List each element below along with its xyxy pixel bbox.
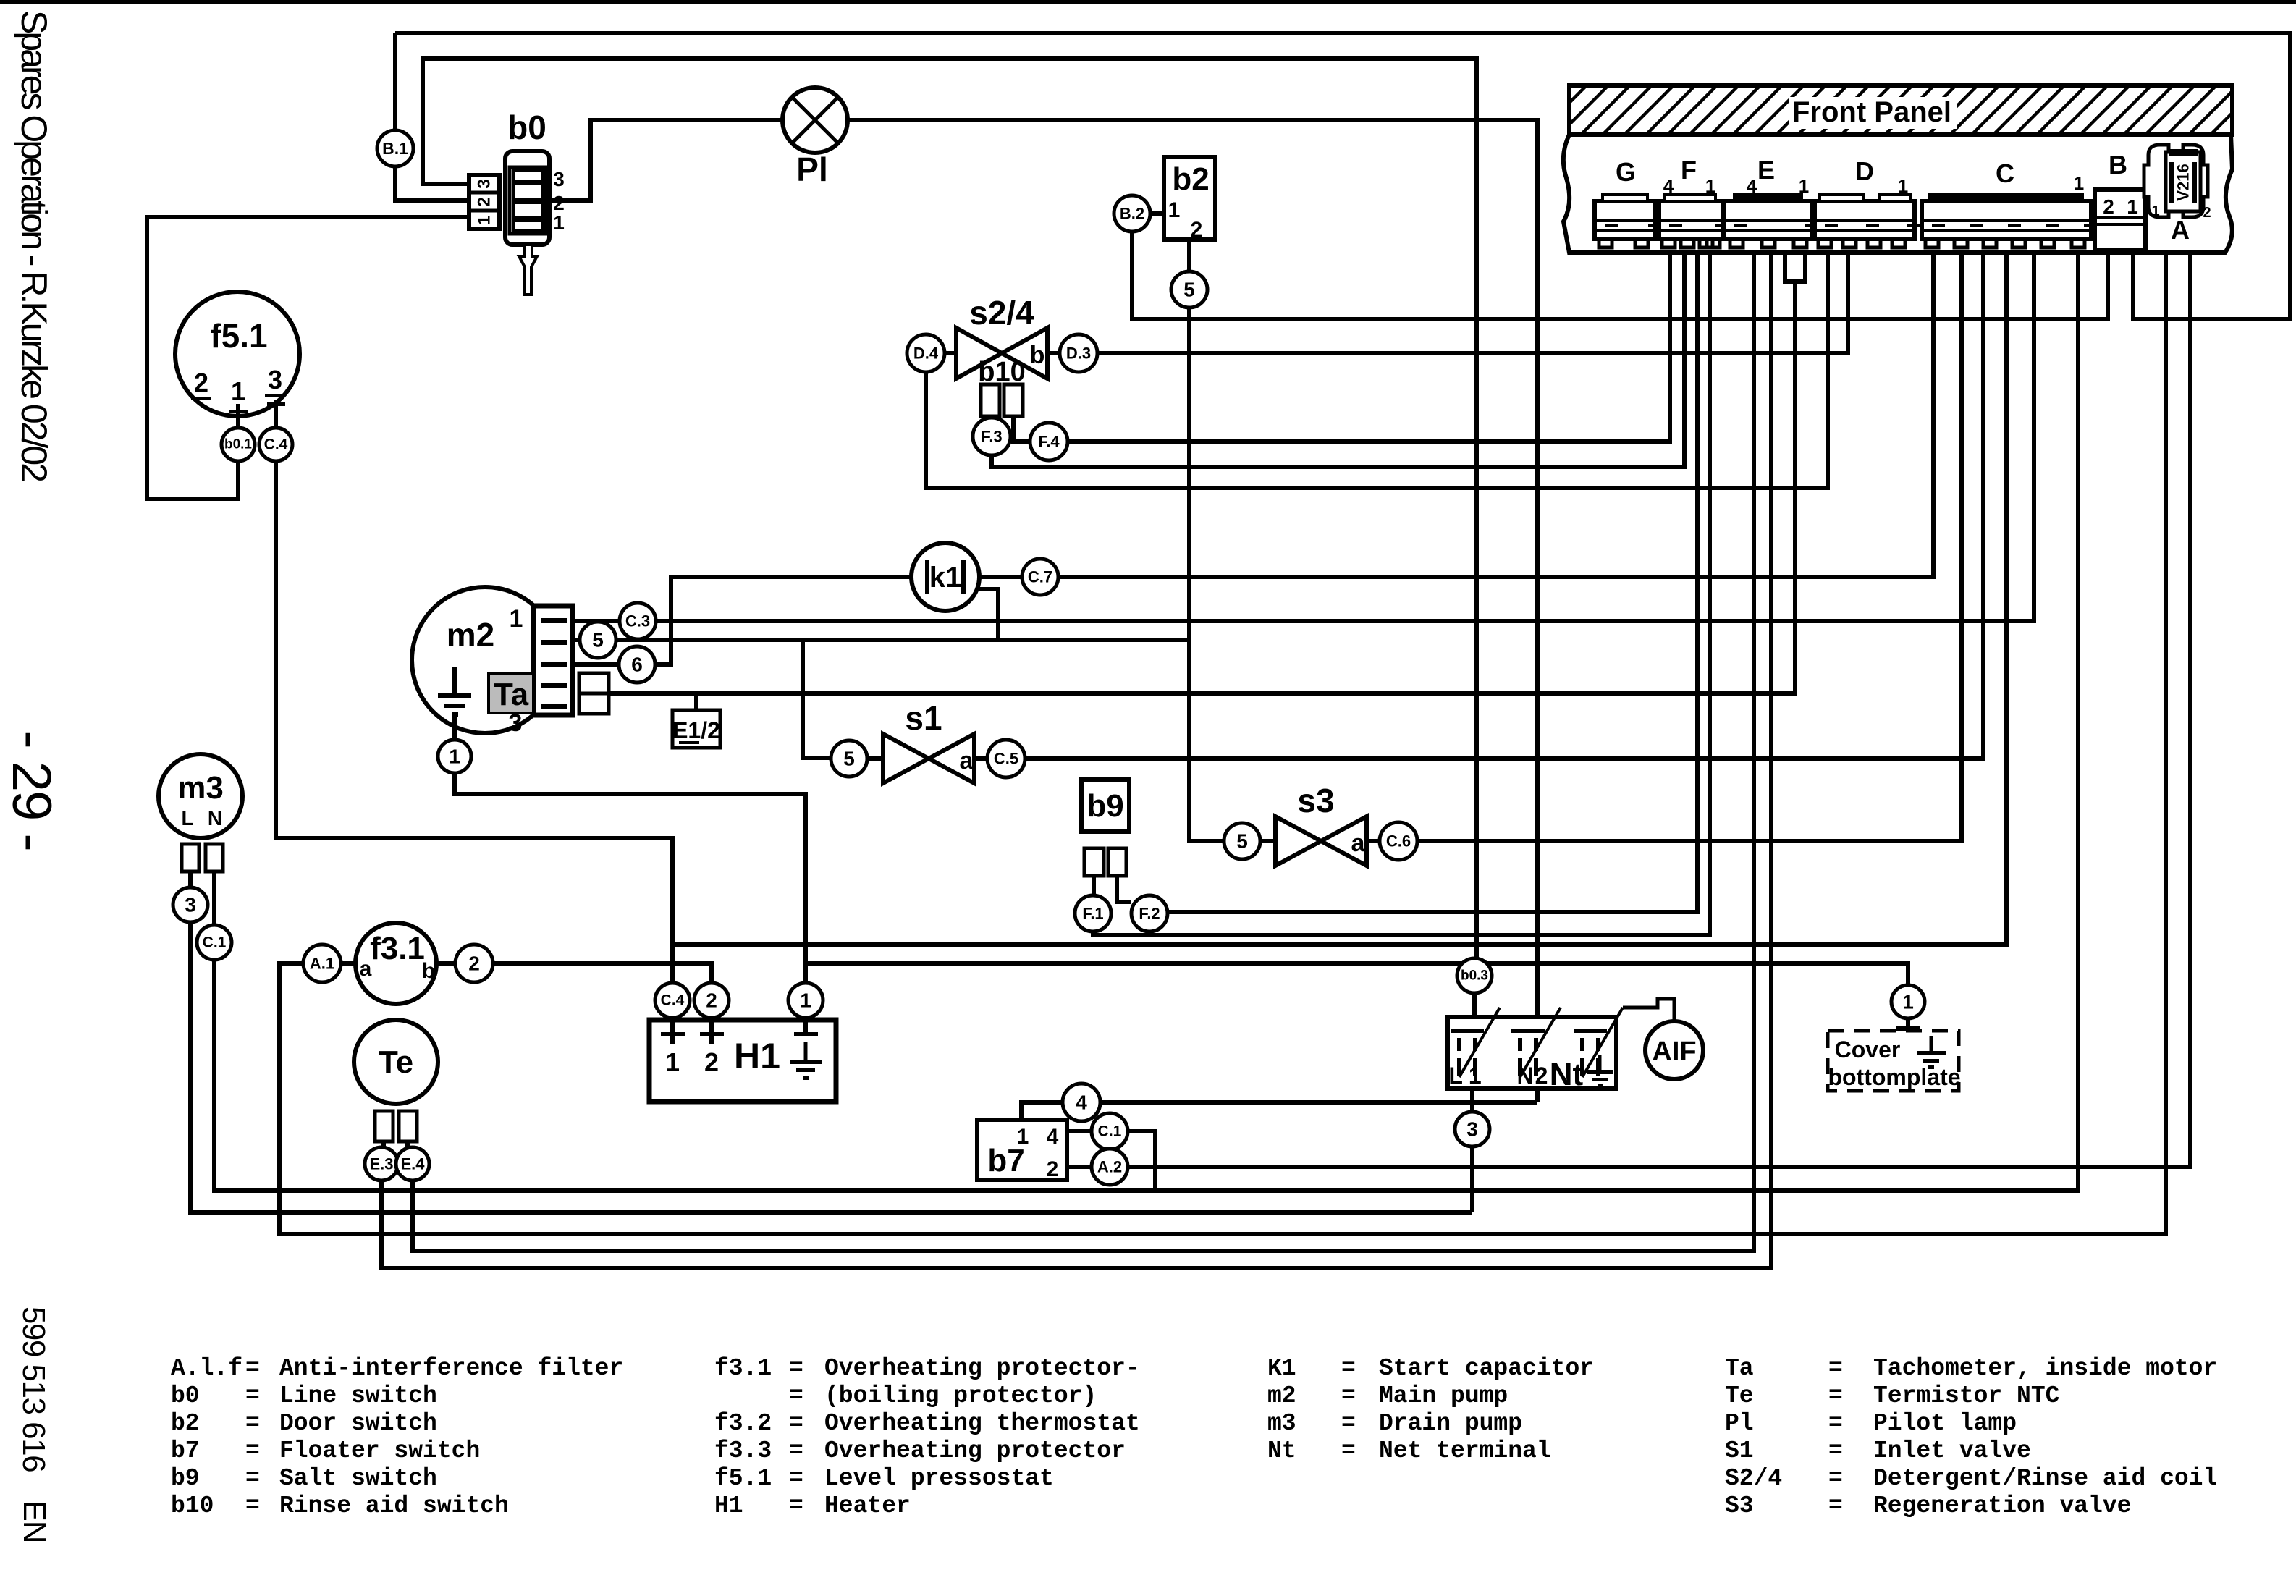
- svg-text:3: 3: [509, 709, 523, 737]
- svg-text:Front Panel: Front Panel: [1792, 96, 1951, 128]
- wire B.2 to connector B pin2: [1132, 232, 2108, 319]
- wire C.4 drop to bus: [276, 461, 672, 983]
- wire H1 gnd pin stub: [803, 1018, 808, 1036]
- wire s2/4 to D.3: [1047, 351, 1060, 355]
- svg-text:599 513 616: 599 513 616: [16, 1306, 51, 1472]
- node A.1: [303, 945, 341, 982]
- wire b0.3 to Nt L: [1472, 993, 1477, 1017]
- svg-text:1: 1: [475, 215, 494, 224]
- svg-text:Heater: Heater: [824, 1492, 911, 1519]
- wire D.4 to s2/4: [945, 351, 956, 355]
- cover bottomplate dashed box: [1828, 1031, 1959, 1091]
- svg-text:3: 3: [475, 179, 494, 188]
- f5.1 pin1 tick: [229, 410, 248, 413]
- wire 2 to H1 pin2: [493, 963, 712, 983]
- svg-text:S3: S3: [1725, 1492, 1754, 1519]
- svg-text:Nt: Nt: [1550, 1057, 1584, 1092]
- svg-text:2: 2: [194, 368, 208, 397]
- wire b0 pin1 from b0.1: [147, 217, 469, 499]
- page top scan edge: [0, 0, 2296, 4]
- wire Te pin to E.3: [381, 1141, 386, 1147]
- svg-text:C.4: C.4: [661, 992, 685, 1009]
- tachometer Ta box: [489, 673, 533, 713]
- svg-text:Main pump: Main pump: [1379, 1382, 1508, 1409]
- node C.4 at f5.1: [259, 428, 292, 461]
- svg-text:2: 2: [706, 989, 717, 1012]
- svg-text:S1: S1: [1725, 1437, 1754, 1464]
- wire b9 pin to F.1: [1092, 876, 1096, 895]
- node node 5 at m2: [580, 622, 616, 658]
- svg-text:G: G: [1616, 157, 1636, 187]
- svg-text:s1: s1: [905, 699, 942, 737]
- wire b0 pin2 to Pl to Nt N: [549, 120, 1537, 1102]
- svg-text:f5.1: f5.1: [714, 1465, 772, 1492]
- node C.1 at b7: [1092, 1113, 1128, 1149]
- svg-text:k1: k1: [929, 562, 962, 594]
- node C.3: [620, 603, 656, 639]
- svg-text:2: 2: [2103, 195, 2114, 218]
- connector E pins 1/2 U-stub: [1785, 253, 1805, 282]
- svg-text:F.1: F.1: [1082, 905, 1103, 923]
- svg-text:F.3: F.3: [981, 428, 1002, 446]
- door switch b2: [1164, 157, 1215, 242]
- wire A.1 bus to connector A: [279, 253, 2166, 1234]
- Nt pin pair N: [1511, 1029, 1545, 1076]
- wire C.4 bus to connector C: [672, 253, 2006, 945]
- svg-text:1: 1: [1168, 198, 1181, 222]
- wire b7 pin2 to A.2: [1067, 1165, 1092, 1169]
- wire b7 pin1 to 4: [1021, 1102, 1063, 1120]
- svg-text:=: =: [245, 1437, 260, 1464]
- svg-text:Overheating protector-: Overheating protector-: [824, 1355, 1140, 1382]
- front panel label pad: [1789, 97, 1957, 129]
- svg-text:L1: L1: [1448, 1063, 1487, 1089]
- svg-text:H1: H1: [734, 1036, 780, 1076]
- svg-text:D.3: D.3: [1066, 345, 1091, 363]
- svg-text:Floater switch: Floater switch: [279, 1437, 480, 1464]
- node D.3: [1060, 334, 1097, 372]
- svg-text:1: 1: [1902, 991, 1914, 1013]
- svg-text:Te: Te: [379, 1044, 413, 1080]
- svg-text:5: 5: [1236, 830, 1248, 853]
- svg-text:Pl: Pl: [1725, 1410, 1754, 1437]
- wire D.4 drop bus to connector D: [926, 253, 1828, 488]
- svg-text:E.3: E.3: [369, 1155, 393, 1173]
- main pump m2: [412, 587, 558, 733]
- svg-text:s3: s3: [1297, 782, 1334, 819]
- svg-text:E1/2: E1/2: [672, 717, 720, 743]
- svg-text:b10: b10: [171, 1492, 214, 1519]
- wire cover plate node1 stub: [1906, 1018, 1910, 1028]
- wire A.2 bus to connector A: [1128, 253, 2190, 1167]
- H1 pin1 tick: [661, 1032, 685, 1036]
- svg-text:Nt: Nt: [1267, 1437, 1296, 1464]
- svg-text:A.2: A.2: [1097, 1158, 1122, 1176]
- svg-text:=: =: [1828, 1355, 1843, 1382]
- wire A.1 to f3.1: [341, 961, 355, 966]
- node B.2: [1114, 195, 1150, 232]
- wire H1 pin1 stub: [670, 1018, 675, 1044]
- wire b7 pin4 to C.1: [1067, 1129, 1092, 1133]
- node C.5: [987, 740, 1025, 777]
- svg-text:=: =: [789, 1437, 803, 1464]
- svg-text:1: 1: [1898, 175, 1908, 197]
- svg-text:F.4: F.4: [1038, 433, 1060, 451]
- svg-text:=: =: [789, 1465, 803, 1492]
- wire C.7 bus to connector C: [1058, 253, 1933, 577]
- wire Nt L drop to 3: [1470, 1089, 1474, 1112]
- svg-text:b: b: [1030, 342, 1045, 369]
- wire C.6 bus to connector C: [1417, 253, 1962, 841]
- svg-text:Pilot lamp: Pilot lamp: [1873, 1410, 2017, 1437]
- line switch b0 connector 1/2/3: [469, 175, 499, 229]
- svg-text:Spares Operation - R.Kurzke 02: Spares Operation - R.Kurzke 02/02: [14, 10, 54, 481]
- node node 1 at cover: [1891, 985, 1925, 1018]
- svg-text:b9: b9: [1086, 788, 1123, 824]
- svg-text:=: =: [1828, 1492, 1843, 1519]
- svg-text:Anti-interference filter: Anti-interference filter: [279, 1355, 623, 1382]
- svg-text:Inlet valve: Inlet valve: [1873, 1437, 2031, 1464]
- wire k1 to C.7: [979, 575, 1022, 579]
- svg-text:H1: H1: [714, 1492, 743, 1519]
- svg-text:C: C: [1996, 159, 2014, 188]
- node b0.1: [221, 428, 255, 461]
- wire f5.1 pin1 stub: [236, 404, 240, 428]
- svg-text:N2: N2: [1517, 1063, 1550, 1089]
- node C.7: [1022, 559, 1058, 595]
- svg-text:Rinse aid switch: Rinse aid switch: [279, 1492, 509, 1519]
- svg-text:Ta: Ta: [1725, 1355, 1754, 1382]
- svg-text:4: 4: [1747, 175, 1757, 197]
- front panel hatched bar: [1569, 85, 2232, 135]
- anti-interference filter AIF: [1645, 1021, 1703, 1079]
- node C.6: [1380, 822, 1417, 860]
- svg-text:F.2: F.2: [1139, 905, 1160, 923]
- node b0.3: [1457, 958, 1492, 993]
- detergent coil s2/4: [956, 294, 1047, 379]
- connector A plug V216: [2144, 145, 2211, 221]
- svg-text:2: 2: [475, 197, 494, 206]
- svg-text:1: 1: [510, 605, 523, 633]
- svg-text:f3.3: f3.3: [714, 1437, 772, 1464]
- Nt switch diagonals: [1459, 1008, 1623, 1077]
- wire b9 pin to F.2: [1117, 876, 1131, 902]
- svg-text:1: 1: [1705, 175, 1715, 197]
- m3 pins: [182, 844, 223, 871]
- svg-text:B.1: B.1: [382, 139, 408, 158]
- wire 5 to s3: [1260, 839, 1275, 843]
- node node 3 at m3: [173, 887, 208, 922]
- connector C body: [1922, 193, 2097, 248]
- wire C.5 bus to connector C: [1025, 253, 1983, 759]
- H1 gnd pin tick: [794, 1032, 818, 1036]
- svg-text:5: 5: [592, 629, 604, 651]
- f5.1 pin2 underline: [191, 397, 211, 400]
- pilot lamp Pl: [782, 88, 848, 153]
- svg-text:=: =: [789, 1410, 803, 1437]
- svg-text:Start capacitor: Start capacitor: [1379, 1355, 1594, 1382]
- svg-text:C.4: C.4: [264, 436, 288, 453]
- svg-text:2: 2: [1047, 1157, 1059, 1181]
- node node 5 at s1: [831, 740, 867, 777]
- svg-text:4: 4: [1663, 175, 1674, 197]
- wire b2 pin2 to 5: [1187, 240, 1191, 271]
- svg-text:L: L: [181, 807, 193, 829]
- svg-text:s2/4: s2/4: [969, 294, 1034, 332]
- node E.4: [396, 1147, 429, 1181]
- node node 1 at H1: [788, 983, 823, 1018]
- svg-text:- 29 -: - 29 -: [1, 730, 62, 850]
- svg-text:=: =: [245, 1492, 260, 1519]
- svg-text:2: 2: [704, 1047, 719, 1077]
- svg-text:b7: b7: [171, 1437, 200, 1464]
- connector B: [2095, 190, 2145, 250]
- svg-text:=: =: [1828, 1465, 1843, 1492]
- svg-text:V216: V216: [2174, 164, 2192, 200]
- wire m2 pin3 to 6: [573, 662, 619, 667]
- wire s3 to C.6: [1367, 839, 1380, 843]
- wire F.2 bus to connector F: [1168, 253, 1697, 912]
- svg-text:1: 1: [231, 376, 245, 406]
- f5.1 pin3 underline: [265, 394, 285, 397]
- svg-text:D: D: [1855, 156, 1874, 186]
- Nt pin pair L: [1451, 1029, 1484, 1076]
- node node 3 at Nt: [1455, 1112, 1490, 1147]
- node node 6: [619, 646, 655, 683]
- svg-text:A.1: A.1: [310, 955, 334, 973]
- node E.3: [365, 1147, 398, 1181]
- m2 Ta terminal block: [579, 673, 609, 714]
- front panel enclosure outline: [1563, 135, 2232, 253]
- svg-text:=: =: [1341, 1382, 1356, 1409]
- wire m2 pin2 to 5: [573, 638, 580, 642]
- svg-text:b9: b9: [171, 1465, 200, 1492]
- svg-text:N: N: [208, 807, 222, 829]
- svg-text:3: 3: [553, 168, 565, 190]
- wire F.3 bus to connector F: [992, 253, 1684, 467]
- wire k1 lower branch to 5 bus: [976, 589, 998, 640]
- svg-text:5: 5: [1183, 279, 1195, 301]
- wire D.3 bus to connector D: [1097, 253, 1848, 353]
- wire f3.1 to 2: [436, 961, 455, 966]
- svg-text:E.4: E.4: [400, 1155, 425, 1173]
- node F.4: [1030, 423, 1068, 460]
- svg-text:=: =: [245, 1465, 260, 1492]
- svg-text:bottomplate: bottomplate: [1828, 1064, 1960, 1090]
- node D.4: [907, 334, 945, 372]
- wire H1 pin2 stub: [709, 1018, 714, 1044]
- wire 5 drop to s3 feed: [1189, 308, 1224, 841]
- wire m2 pin1 to C.3: [573, 619, 620, 623]
- svg-text:b0.1: b0.1: [224, 437, 252, 452]
- node F.2: [1131, 895, 1168, 932]
- f5.1 pin3 tick: [267, 402, 285, 406]
- svg-text:Termistor NTC: Termistor NTC: [1873, 1382, 2059, 1409]
- svg-text:6: 6: [631, 654, 643, 676]
- svg-text:2: 2: [468, 953, 480, 975]
- node F.1: [1075, 895, 1111, 932]
- svg-text:=: =: [245, 1355, 260, 1382]
- svg-text:=: =: [789, 1492, 803, 1519]
- svg-text:C.6: C.6: [1386, 832, 1411, 850]
- svg-text:1: 1: [2074, 172, 2084, 194]
- H1 ground symbol: [790, 1042, 822, 1080]
- svg-text:Drain pump: Drain pump: [1379, 1410, 1522, 1437]
- svg-text:Cover: Cover: [1835, 1036, 1901, 1063]
- svg-text:1: 1: [2127, 195, 2138, 218]
- wire 6 to k1: [655, 577, 912, 664]
- wire B.1 top bus: [395, 33, 2290, 319]
- cover plate pin tick: [1896, 1026, 1920, 1031]
- wire C.3 bus to connector C: [656, 253, 2034, 621]
- svg-text:C.5: C.5: [994, 750, 1018, 768]
- svg-text:b0: b0: [507, 109, 546, 146]
- wire s1 to C.5: [974, 756, 987, 761]
- wire m3 N stub: [212, 871, 216, 925]
- salt switch b9: [1081, 780, 1129, 832]
- svg-text:2: 2: [2203, 205, 2211, 221]
- svg-text:=: =: [1341, 1410, 1356, 1437]
- wire node1 to H1 pin: [455, 773, 806, 983]
- svg-text:m2: m2: [1267, 1382, 1296, 1409]
- svg-text:a: a: [1351, 829, 1366, 857]
- inlet valve s1: [883, 699, 974, 783]
- wire Ta line to E1/2: [609, 282, 1795, 693]
- svg-text:Pl: Pl: [796, 151, 827, 188]
- wire b10 pin to F.4: [1013, 416, 1030, 442]
- wire 3 bus m3 to Nt: [190, 922, 1472, 1212]
- svg-text:K1: K1: [1267, 1355, 1296, 1382]
- svg-text:=: =: [789, 1355, 803, 1382]
- svg-text:C.3: C.3: [625, 612, 650, 630]
- svg-text:Salt switch: Salt switch: [279, 1465, 437, 1492]
- svg-text:1: 1: [1799, 175, 1809, 197]
- svg-text:1: 1: [800, 989, 811, 1012]
- svg-text:Regeneration valve: Regeneration valve: [1873, 1492, 2131, 1519]
- heater H1: [649, 1020, 836, 1102]
- svg-text:4: 4: [1076, 1092, 1087, 1114]
- wire m3 L stub: [188, 871, 193, 887]
- wire Te pin to E.4: [405, 1141, 410, 1147]
- node node 2 at H1: [694, 983, 729, 1018]
- node A.2: [1092, 1149, 1128, 1185]
- wire m2 ground to node 1: [452, 717, 457, 740]
- svg-text:1: 1: [665, 1047, 680, 1077]
- wire 3 drop to bus: [1470, 1147, 1474, 1212]
- svg-text:Overheating protector: Overheating protector: [824, 1437, 1126, 1464]
- svg-text:4: 4: [1047, 1125, 1059, 1149]
- node node 2 at f3.1: [455, 945, 493, 982]
- connector G body: [1595, 195, 1661, 248]
- svg-text:=: =: [1828, 1382, 1843, 1409]
- svg-text:A: A: [2171, 215, 2190, 245]
- cover ground symbol: [1917, 1036, 1946, 1069]
- svg-text:Tachometer, inside motor: Tachometer, inside motor: [1873, 1355, 2217, 1382]
- wire E.3 bus to connector E: [381, 253, 1771, 1268]
- node node 1 at m2: [438, 740, 471, 773]
- svg-text:a: a: [360, 957, 372, 981]
- connector D topbar2: [1879, 195, 1911, 201]
- connector F body: [1659, 195, 1729, 248]
- svg-text:=: =: [1341, 1437, 1356, 1464]
- svg-text:B.2: B.2: [1120, 205, 1144, 223]
- svg-text:=: =: [1341, 1355, 1356, 1382]
- svg-text:3: 3: [268, 365, 282, 394]
- svg-text:b2: b2: [1172, 161, 1209, 197]
- wire 5 branch to s1: [803, 640, 831, 758]
- node F.3: [973, 418, 1010, 455]
- wire AIF to Nt gnd: [1623, 999, 1674, 1022]
- svg-text:m3: m3: [177, 770, 224, 806]
- svg-text:Ta: Ta: [494, 677, 529, 712]
- svg-text:1: 1: [1017, 1125, 1029, 1149]
- svg-text:m3: m3: [1267, 1410, 1296, 1437]
- svg-text:EN: EN: [17, 1500, 52, 1542]
- svg-text:=: =: [1828, 1410, 1843, 1437]
- svg-text:Level pressostat: Level pressostat: [824, 1465, 1054, 1492]
- svg-text:C.1: C.1: [1098, 1123, 1122, 1140]
- node node 4: [1063, 1084, 1100, 1121]
- m2 connector block: [533, 606, 573, 715]
- wire C.1 drop to bus: [1128, 1131, 1155, 1191]
- svg-text:m2: m2: [447, 616, 494, 654]
- wire b0 pin3 top bus to b0.3: [423, 59, 1477, 958]
- regeneration valve s3: [1275, 782, 1367, 866]
- wire E1/2 stub: [694, 693, 698, 710]
- svg-text:1: 1: [553, 211, 565, 234]
- node node 5 at s3: [1224, 823, 1260, 859]
- svg-text:C.7: C.7: [1028, 568, 1052, 586]
- connector D body: [1815, 195, 1920, 248]
- line switch b0 plug stem: [519, 245, 537, 295]
- svg-text:f3.2: f3.2: [714, 1410, 772, 1437]
- wire f5.1 pin3 stub: [274, 400, 278, 428]
- start capacitor k1: [911, 543, 979, 611]
- wire F.1 bus to connector F: [1093, 253, 1710, 935]
- svg-text:b0: b0: [171, 1382, 200, 1409]
- svg-text:3: 3: [185, 894, 196, 916]
- wire node1 branch to cover plate: [806, 963, 1908, 985]
- svg-text:Te: Te: [1725, 1382, 1754, 1409]
- net terminal Nt box: [1448, 1017, 1616, 1089]
- ground symbol inside m2: [438, 667, 471, 717]
- node B.1: [377, 130, 413, 166]
- svg-text:Overheating thermostat: Overheating thermostat: [824, 1410, 1140, 1437]
- svg-text:C.1: C.1: [203, 934, 227, 951]
- wire E.4 bus to connector E: [413, 253, 1754, 1251]
- svg-text:E: E: [1757, 155, 1775, 185]
- svg-text:1: 1: [449, 746, 460, 768]
- svg-text:=: =: [789, 1382, 803, 1409]
- wire C.1 bus to connector C: [214, 253, 2078, 1191]
- svg-text:A.l.f: A.l.f: [171, 1355, 242, 1382]
- svg-text:B: B: [2109, 150, 2127, 180]
- svg-text:3: 3: [1466, 1118, 1478, 1141]
- svg-text:f3.1: f3.1: [714, 1355, 772, 1382]
- svg-text:AIF: AIF: [1652, 1036, 1696, 1067]
- wire 4 bus to Nt N: [1100, 1100, 1537, 1105]
- svg-text:b0.3: b0.3: [1461, 968, 1488, 984]
- svg-text:5: 5: [843, 748, 855, 770]
- b9 pins: [1084, 848, 1126, 876]
- svg-text:Net terminal: Net terminal: [1379, 1437, 1551, 1464]
- connector E body: [1724, 193, 1818, 248]
- wire F.4 bus to connector F: [1068, 253, 1670, 442]
- svg-text:D.4: D.4: [913, 345, 939, 363]
- Nt ground symbol: [1587, 1055, 1613, 1088]
- Nt pin pair gnd: [1574, 1029, 1607, 1076]
- svg-text:=: =: [245, 1382, 260, 1409]
